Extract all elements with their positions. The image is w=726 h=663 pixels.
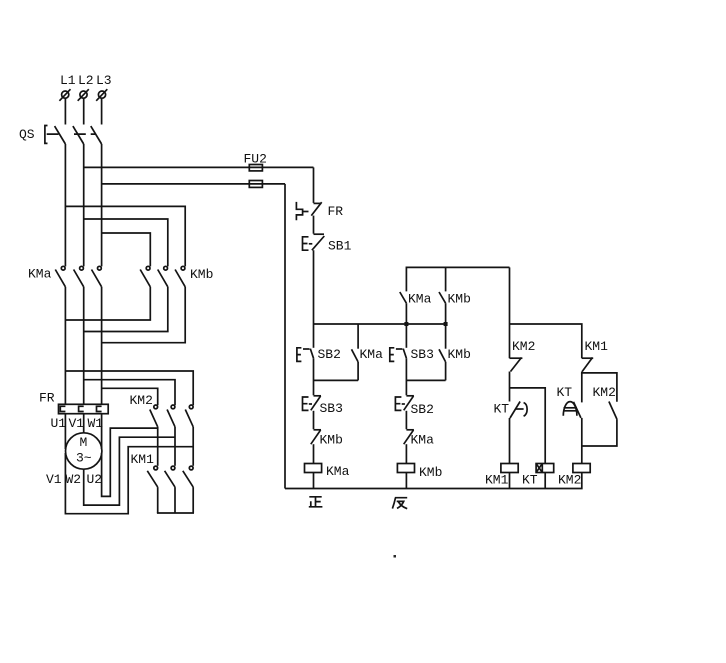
wire phase B to fuse FU2a — [84, 166, 314, 168]
thermal relay FR contact (control) — [296, 202, 343, 220]
wire FR to motor — [65, 414, 101, 449]
wire KM1 NC to parallel pair — [582, 372, 617, 402]
svg-text:KM1: KM1 — [131, 452, 155, 467]
wire motor U2 loop to KM2 pole 1 output — [102, 428, 158, 496]
wire KMa pole outputs down — [65, 287, 101, 405]
svg-text:KMa: KMa — [411, 433, 435, 448]
wire phase B branch to KMb pole 2 — [84, 219, 168, 266]
wire coil KMa to bottom rail — [313, 473, 315, 489]
wire KMa KMb parallel top — [406, 267, 509, 291]
svg-text:KMb: KMb — [320, 433, 343, 448]
wire SB3 to node — [405, 358, 407, 395]
svg-text:FR: FR — [39, 391, 55, 406]
stop button SB1 — [303, 234, 352, 253]
wire KM1 star point bar — [157, 487, 194, 513]
wire node row reverse — [406, 379, 445, 381]
wire phase C branch to KMb pole 1 — [102, 233, 151, 266]
svg-text:KMb: KMb — [190, 267, 213, 282]
svg-text:KM2: KM2 — [558, 473, 581, 488]
svg-text:V1: V1 — [46, 472, 62, 487]
svg-text:FR: FR — [328, 204, 344, 219]
auxiliary contact KMa (top pair) — [400, 292, 432, 325]
disconnect switch QS — [19, 126, 102, 145]
svg-text:KM2: KM2 — [512, 339, 535, 354]
wire SB3 to KMb NC — [313, 411, 315, 429]
svg-text:KM1: KM1 — [485, 473, 509, 488]
terminal L3 — [96, 73, 112, 101]
coil KM2 — [558, 464, 590, 488]
svg-text:L3: L3 — [96, 73, 112, 88]
coil KM1 — [485, 464, 518, 488]
svg-text:KMa: KMa — [408, 292, 432, 307]
coil KMa — [305, 464, 350, 480]
wire coil KM1 to bottom rail — [509, 473, 511, 489]
svg-text:SB2: SB2 — [411, 402, 434, 417]
svg-text:KM2: KM2 — [130, 393, 153, 408]
svg-text:SB1: SB1 — [328, 239, 352, 254]
start button SB2 (forward) — [297, 324, 341, 362]
wire SB1 to rail node — [313, 250, 315, 324]
junction node forward rail — [404, 322, 408, 326]
wire coil KT to bottom rail — [544, 473, 546, 489]
svg-text:L1: L1 — [60, 73, 76, 88]
terminal L2 — [78, 73, 94, 101]
svg-text:QS: QS — [19, 127, 35, 142]
svg-text:V1: V1 — [69, 416, 85, 431]
svg-text:KMa: KMa — [326, 464, 350, 479]
wire node row forward — [314, 379, 359, 381]
wire SB2 to node — [313, 358, 315, 395]
interlock contact KMb NC (forward) — [311, 430, 343, 448]
contactor KMa main contacts — [28, 266, 102, 286]
motor M 3~ — [66, 433, 102, 469]
thermal relay FR heaters — [39, 391, 108, 414]
svg-text:KT: KT — [522, 473, 538, 488]
wire KMa NC to coil KMb — [405, 444, 407, 463]
stray dot — [394, 555, 397, 558]
motor terminal labels U1 V1 W1 — [51, 416, 104, 431]
terminal L1 — [59, 73, 75, 101]
fuse FU2a — [244, 152, 267, 171]
wire phase C to fuse FU2b — [102, 183, 285, 185]
svg-text:KT: KT — [557, 385, 573, 400]
svg-text:KT: KT — [494, 402, 510, 417]
wire L2 to QS — [83, 98, 85, 124]
wire phase A QS to KMa — [64, 144, 66, 266]
wire L1 to QS — [64, 98, 66, 124]
interlock contact KM1 NC (delta branch) — [582, 339, 608, 372]
wire phase C QS to KMa — [101, 144, 103, 266]
fuse FU2b — [249, 181, 262, 188]
self-hold contact KMa (forward) — [352, 324, 384, 380]
svg-text:KMa: KMa — [28, 267, 52, 282]
wire KT NO to coil KM2 — [581, 418, 583, 464]
wire phase A to KM2 pole 3 — [65, 371, 193, 405]
wire bottom rail — [285, 473, 582, 489]
svg-text:KMb: KMb — [419, 465, 442, 480]
wire phase B QS to KMa — [83, 144, 85, 266]
timed contact KT NO (delay close) — [557, 373, 582, 418]
interlock contact KMa NC (reverse) — [404, 430, 434, 448]
svg-text:M: M — [80, 435, 88, 450]
wire FR to SB1 — [313, 216, 315, 234]
wire timer section rail — [510, 324, 582, 358]
svg-text:W1: W1 — [88, 416, 104, 431]
wire KT/KM2 parallel rejoin — [582, 419, 617, 446]
wire fuse FU2a to FR contact — [313, 167, 315, 203]
wire motor V1 loop to KM2 pole 3 output — [65, 447, 193, 514]
wire phase A branch to KMb pole 3 — [65, 206, 185, 266]
contactor KM1 main contacts (power) — [131, 452, 194, 487]
wire KMb pole 2 output to phase B — [84, 287, 168, 332]
coil KT — [522, 464, 554, 488]
svg-text:KM1: KM1 — [585, 339, 609, 354]
junction node reverse rail — [444, 322, 448, 326]
svg-text:FU2: FU2 — [244, 152, 267, 167]
wire left control rail — [284, 184, 286, 489]
wire KM2 NC to KT NC — [509, 372, 511, 402]
wire KM2 outputs to KM1 — [158, 427, 194, 466]
wire motor W2 loop to KM2 pole 2 output — [84, 437, 175, 505]
svg-text:SB3: SB3 — [411, 347, 434, 362]
interlock button SB3 NC (forward) — [303, 396, 343, 416]
contactor KMb main contacts — [140, 266, 213, 286]
wire KMb NC to coil KMa — [313, 444, 315, 463]
motor terminal labels V1 W2 U2 — [46, 472, 102, 487]
svg-text:3~: 3~ — [76, 451, 92, 466]
wire top feed down to KM2 NC — [509, 267, 511, 358]
wire KMb pole 1 output to phase A — [65, 287, 150, 320]
wire phase B to KM2 pole 2 — [84, 380, 175, 406]
svg-text:KMb: KMb — [448, 347, 471, 362]
interlock button SB2 NC (reverse) — [395, 396, 434, 417]
wire branch to KT coil — [510, 388, 546, 464]
svg-text:SB2: SB2 — [318, 347, 341, 362]
wire KT NC to coil KM1 — [509, 418, 511, 464]
start button SB3 (reverse) — [390, 324, 434, 362]
wire L3 to QS — [101, 98, 103, 124]
label forward — [309, 497, 323, 507]
wire phase C to KM2 pole 1 — [102, 388, 158, 405]
contactor KM2 main contacts (power) — [130, 393, 194, 427]
svg-text:KM2: KM2 — [593, 385, 616, 400]
timed contact KT NC (delay open) — [494, 402, 528, 419]
wire control feed rail — [314, 323, 446, 325]
wire coil KMb to bottom rail — [405, 473, 407, 489]
svg-text:U2: U2 — [87, 472, 103, 487]
svg-text:KMa: KMa — [360, 347, 384, 362]
wire SB2 to KMa NC — [405, 411, 407, 429]
auxiliary contact KMb (top pair) — [439, 267, 471, 324]
interlock contact KM2 NC (timer branch) — [510, 339, 536, 372]
svg-text:U1: U1 — [51, 416, 67, 431]
wire KMb pole 3 output to phase C — [102, 287, 186, 343]
label reverse — [392, 498, 407, 509]
svg-text:W2: W2 — [66, 472, 82, 487]
coil KMb — [397, 464, 442, 481]
svg-text:SB3: SB3 — [320, 401, 343, 416]
svg-text:KMb: KMb — [448, 292, 471, 307]
svg-text:L2: L2 — [78, 73, 94, 88]
auxiliary contact KM2 NO (parallel with KT) — [593, 385, 617, 419]
self-hold contact KMb (reverse) — [439, 324, 471, 380]
